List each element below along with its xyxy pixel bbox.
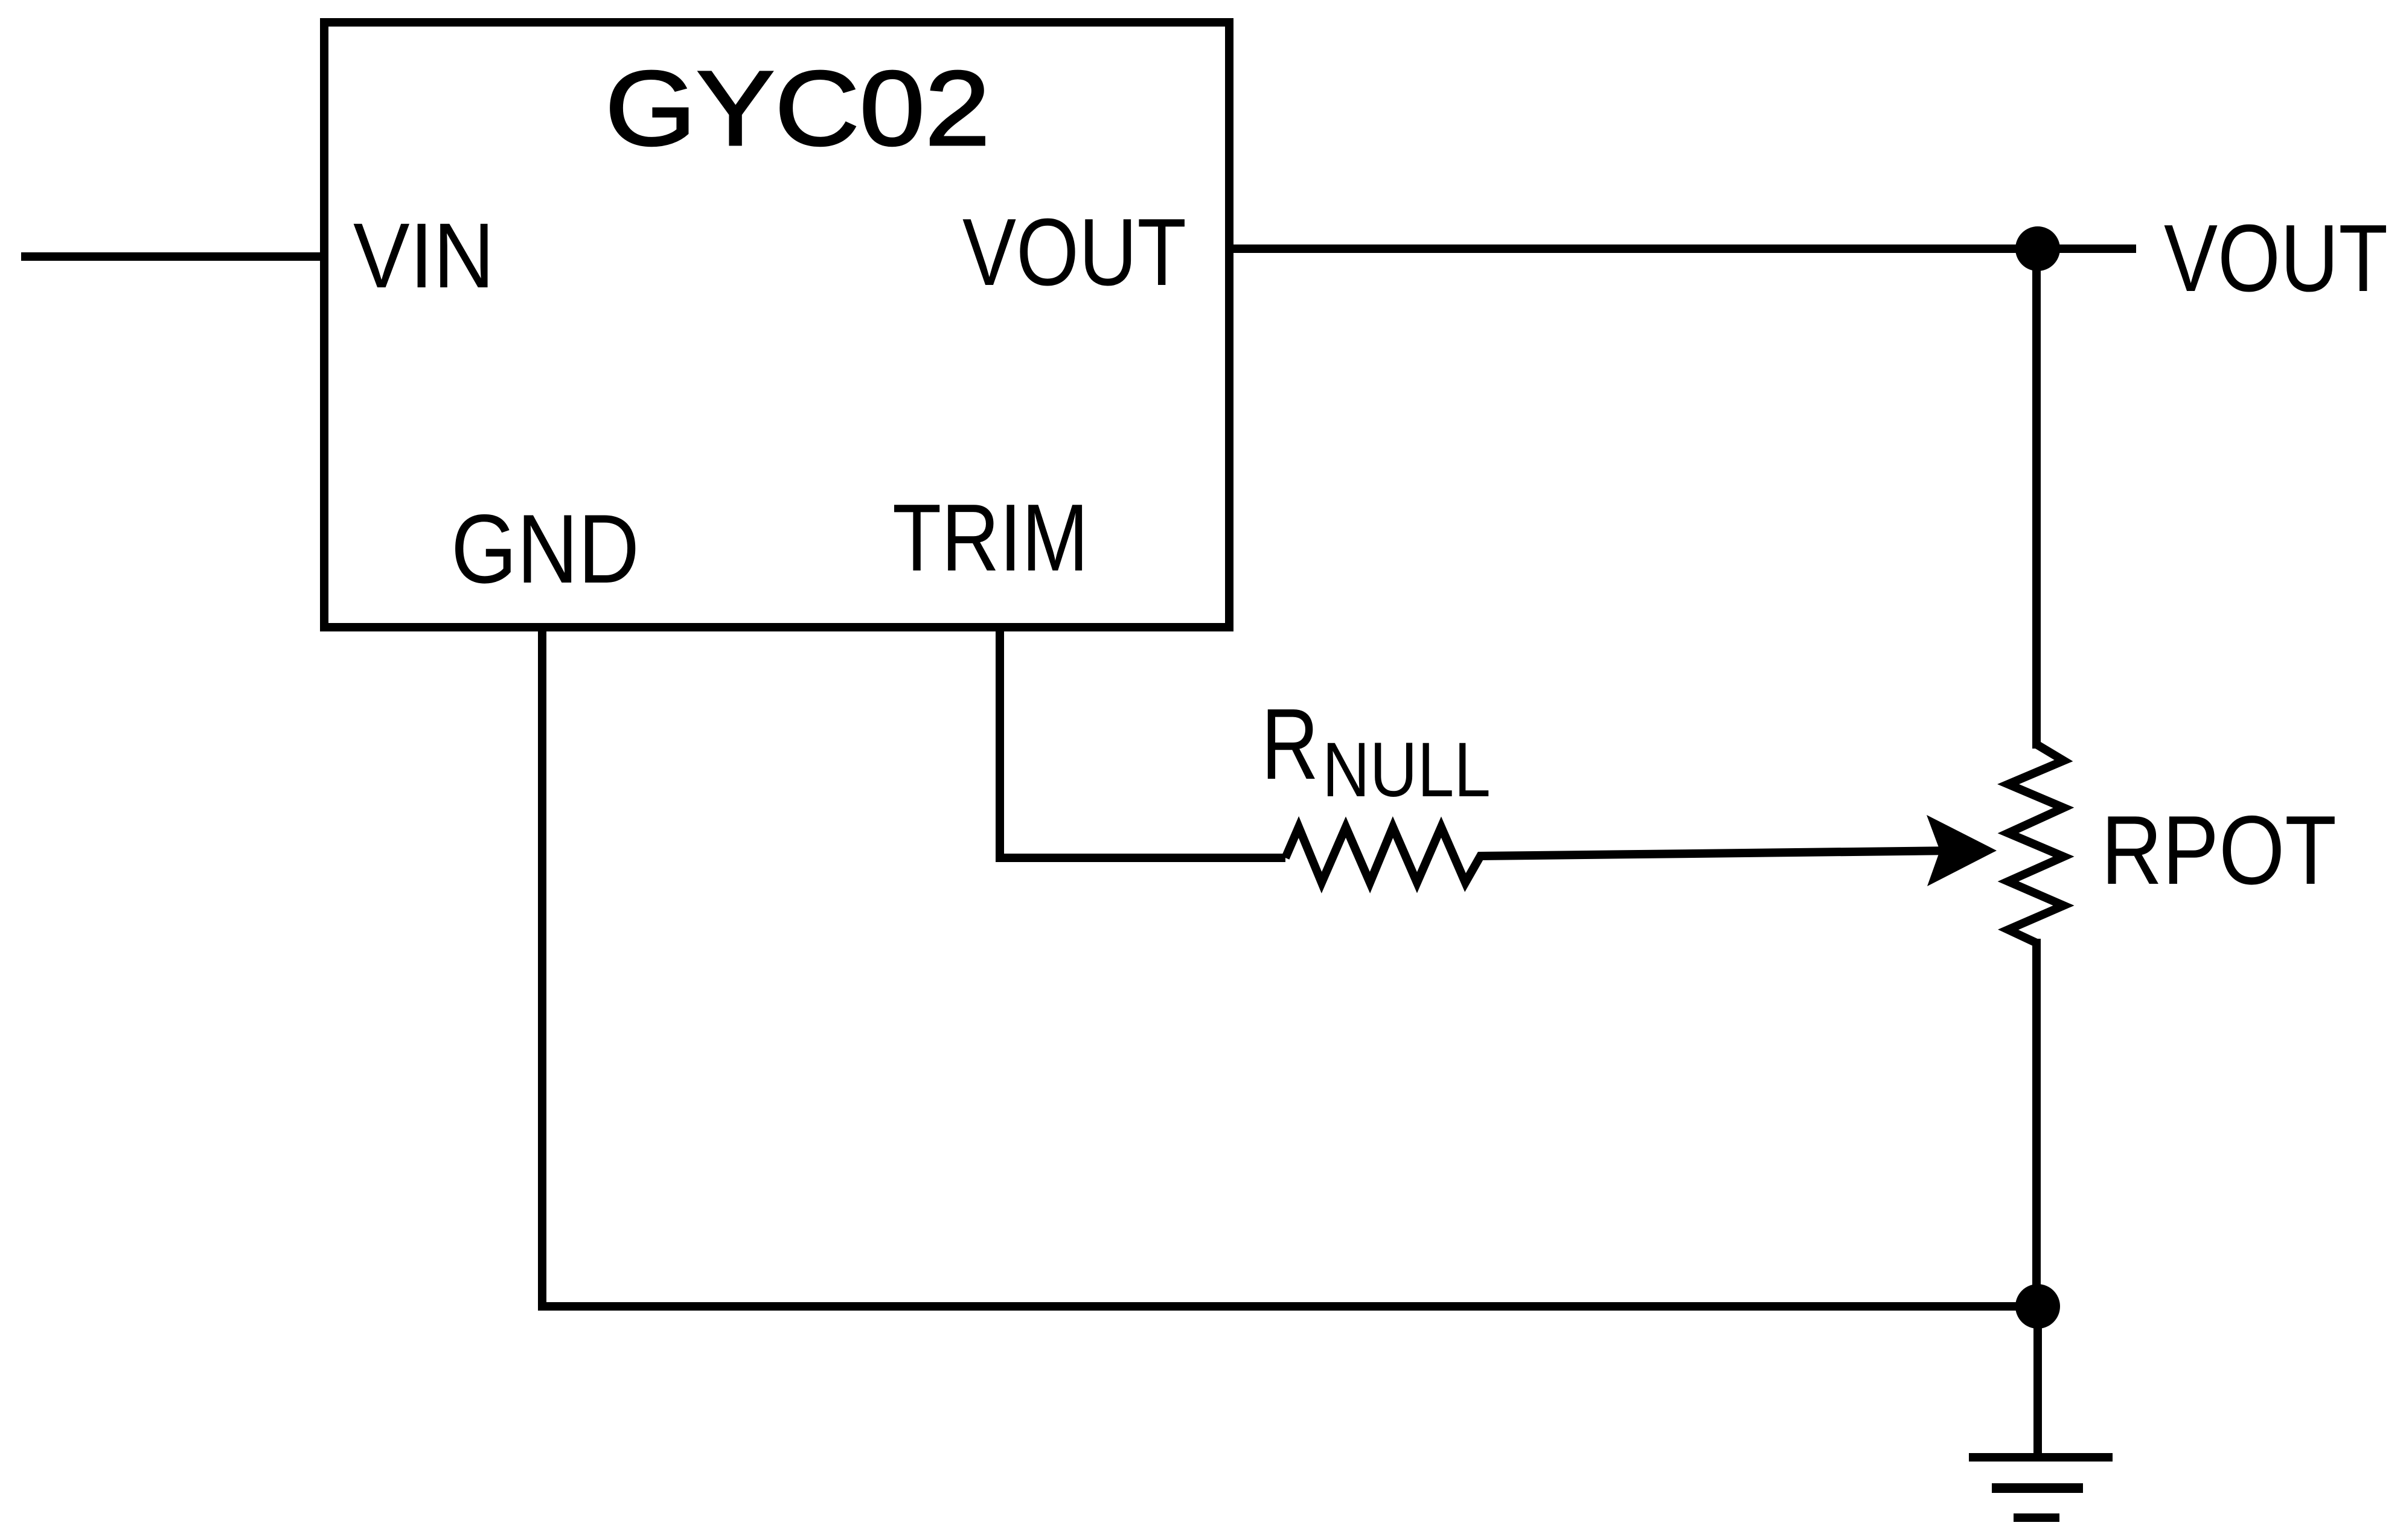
svg-text:VOUT: VOUT bbox=[2164, 205, 2388, 312]
svg-text:TRIM: TRIM bbox=[892, 485, 1089, 591]
svg-text:GND: GND bbox=[451, 494, 639, 604]
svg-text:RPOT: RPOT bbox=[2101, 796, 2337, 905]
svg-text:R: R bbox=[1261, 688, 1319, 800]
svg-text:VOUT: VOUT bbox=[962, 199, 1186, 305]
svg-text:GYC02: GYC02 bbox=[605, 50, 990, 168]
svg-text:NULL: NULL bbox=[1322, 727, 1491, 813]
svg-text:VIN: VIN bbox=[353, 204, 494, 307]
